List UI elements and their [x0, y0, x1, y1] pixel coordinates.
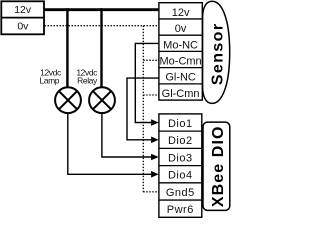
svg-text:Gl-Cmn: Gl-Cmn [162, 88, 200, 100]
svg-text:12v: 12v [14, 4, 32, 16]
svg-text:Dio4: Dio4 [168, 170, 193, 182]
svg-text:0v: 0v [17, 20, 29, 32]
svg-text:Sensor: Sensor [210, 23, 227, 86]
svg-text:Dio1: Dio1 [168, 118, 193, 130]
svg-text:Mo-NC: Mo-NC [163, 39, 198, 51]
svg-text:XBee DIO: XBee DIO [210, 125, 227, 207]
svg-text:Mo-Cmn: Mo-Cmn [160, 56, 202, 68]
svg-text:Relay: Relay [77, 75, 98, 85]
svg-text:Lamp: Lamp [39, 75, 59, 85]
svg-text:Gnd5: Gnd5 [166, 187, 195, 199]
svg-text:Pwr6: Pwr6 [167, 204, 194, 216]
svg-text:Dio3: Dio3 [168, 152, 193, 164]
svg-text:Dio2: Dio2 [168, 135, 193, 147]
svg-text:12v: 12v [172, 7, 190, 19]
svg-text:0v: 0v [175, 23, 187, 35]
svg-text:Gl-NC: Gl-NC [165, 72, 196, 84]
